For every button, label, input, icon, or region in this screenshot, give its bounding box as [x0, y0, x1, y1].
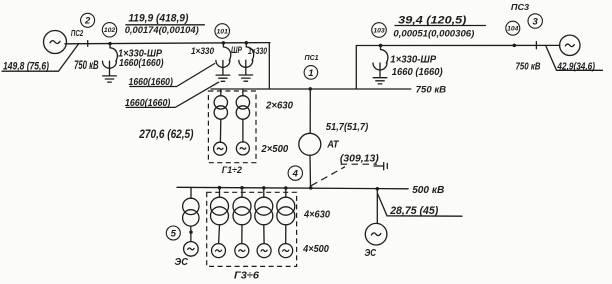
- svg-text:ПС2: ПС2: [71, 29, 84, 38]
- svg-text:ПС1: ПС1: [305, 53, 319, 62]
- svg-text:2: 2: [84, 16, 91, 27]
- svg-text:750 кВ: 750 кВ: [516, 61, 541, 73]
- svg-text:1: 1: [308, 68, 313, 79]
- svg-text:500 кВ: 500 кВ: [412, 184, 444, 196]
- svg-text:4×630: 4×630: [303, 210, 330, 221]
- svg-text:4×500: 4×500: [302, 244, 329, 255]
- svg-text:0,00051(0,000306): 0,00051(0,000306): [393, 28, 474, 39]
- svg-text:ЭС: ЭС: [365, 248, 377, 259]
- svg-text:2×500: 2×500: [260, 144, 288, 155]
- svg-text:1×330: 1×330: [248, 46, 267, 56]
- svg-text:1660(1660): 1660(1660): [119, 58, 164, 69]
- svg-text:1660 (1660): 1660 (1660): [392, 67, 443, 78]
- svg-text:3: 3: [533, 16, 539, 27]
- svg-text:1660(1660): 1660(1660): [129, 77, 174, 88]
- svg-text:ШР: ШР: [231, 45, 243, 55]
- svg-text:2×630: 2×630: [265, 101, 293, 112]
- svg-text:ЭС: ЭС: [175, 256, 189, 268]
- svg-text:119,9 (418,9): 119,9 (418,9): [128, 12, 188, 24]
- svg-text:149,8 (75,6): 149,8 (75,6): [3, 60, 49, 72]
- svg-text:ПС3: ПС3: [511, 3, 530, 12]
- svg-text:51,7(51,7): 51,7(51,7): [326, 122, 369, 133]
- svg-text:750 кВ: 750 кВ: [74, 58, 99, 72]
- svg-text:103: 103: [373, 27, 385, 34]
- svg-text:270,6 (62,5): 270,6 (62,5): [138, 127, 193, 141]
- svg-text:39,4 (120,5): 39,4 (120,5): [398, 14, 467, 26]
- svg-text:1×330: 1×330: [191, 46, 214, 56]
- svg-text:102: 102: [104, 27, 116, 34]
- svg-text:1660(1660): 1660(1660): [125, 98, 171, 109]
- svg-text:5: 5: [171, 228, 177, 239]
- svg-text:Г3÷6: Г3÷6: [234, 269, 259, 281]
- svg-text:4: 4: [292, 169, 299, 180]
- svg-text:750 кВ: 750 кВ: [416, 84, 447, 95]
- svg-text:42,9(34,6): 42,9(34,6): [557, 61, 596, 72]
- svg-text:101: 101: [217, 28, 229, 35]
- svg-text:1×330-ШР: 1×330-ШР: [390, 54, 436, 65]
- svg-text:104: 104: [507, 26, 519, 33]
- svg-text:28,75 (45): 28,75 (45): [389, 205, 438, 217]
- svg-text:0,00174(0,00104): 0,00174(0,00104): [125, 25, 199, 36]
- svg-text:(309,13): (309,13): [340, 153, 379, 165]
- svg-text:АТ: АТ: [326, 140, 339, 151]
- svg-text:Г1÷2: Г1÷2: [222, 165, 243, 176]
